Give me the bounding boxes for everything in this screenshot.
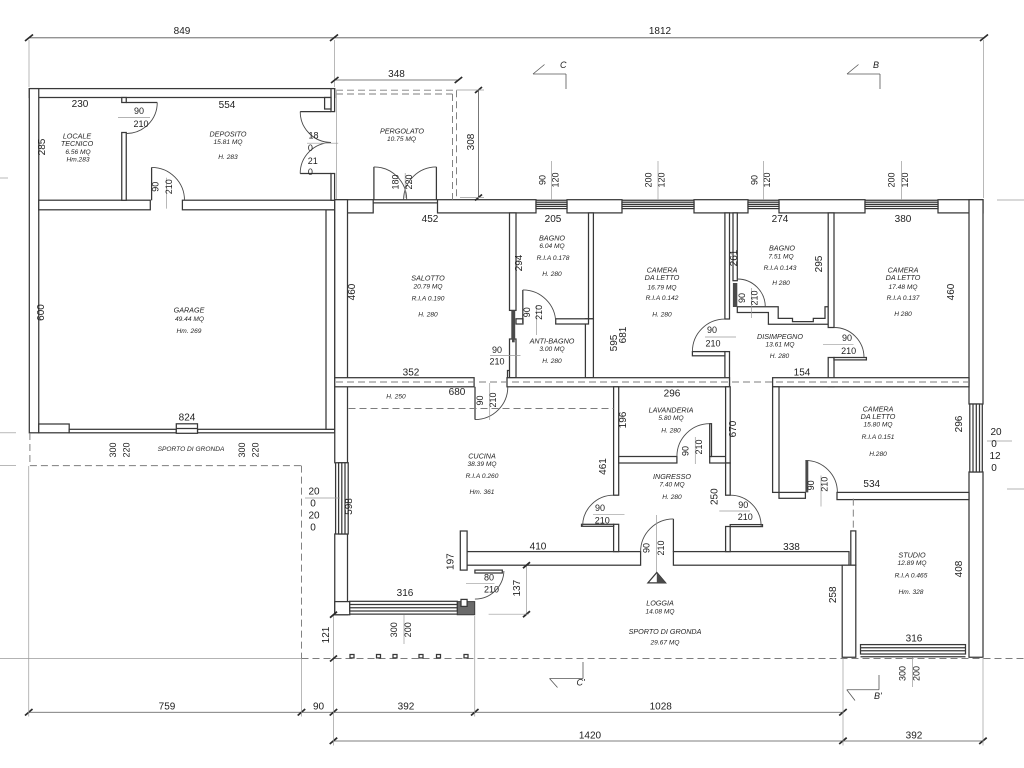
svg-text:0: 0 [310,499,316,510]
svg-text:205: 205 [545,214,562,225]
svg-text:308: 308 [466,133,477,150]
house east wall lower [969,472,983,657]
svg-text:BAGNO: BAGNO [539,234,565,243]
ext line west edge at sporto [0,465,16,467]
svg-text:338: 338 [783,542,800,553]
svg-text:12: 12 [989,451,1001,462]
svg-text:0: 0 [991,463,997,474]
pergolato dashed outline outer right [456,90,458,200]
door deposito east double leaf2 arc [300,143,331,174]
svg-text:20.79 MQ: 20.79 MQ [413,284,443,291]
svg-text:554: 554 [219,100,236,111]
svg-text:7.51 MQ: 7.51 MQ [768,254,793,261]
door salotto-cucina arc [475,387,508,420]
svg-text:210: 210 [750,290,760,305]
tick A2 [298,709,306,716]
svg-text:824: 824 [179,413,196,424]
svg-text:6.56 MQ: 6.56 MQ [65,149,90,156]
door pergolato threshold outer [373,199,437,201]
tick A4 [471,709,479,716]
svg-text:197: 197 [446,553,457,570]
cucina / loggia door side wall [461,599,467,606]
lavanderia south wall east segment [710,457,726,464]
tick 348 right [455,77,463,83]
house north wall seg1 [335,200,373,213]
svg-text:258: 258 [828,586,839,603]
cucina south wall west [335,602,350,615]
ingresso east wall lower [726,527,731,552]
svg-text:0: 0 [308,167,313,177]
window camera1 200x120 [622,200,694,208]
svg-text:20: 20 [308,487,320,498]
svg-text:410: 410 [530,542,547,553]
svg-text:300: 300 [389,622,399,637]
bottom dim line A [29,711,843,713]
svg-text:12.89 MQ: 12.89 MQ [898,560,927,567]
svg-text:GARAGE: GARAGE [174,306,205,315]
svg-text:300: 300 [237,442,247,457]
svg-text:10.75 MQ: 10.75 MQ [387,136,416,143]
door pergolato arc1 [374,167,407,200]
door loggia arc [641,519,674,552]
svg-text:1812: 1812 [649,26,672,37]
svg-text:LOGGIA: LOGGIA [646,599,674,608]
svg-text:ANTI-BAGNO: ANTI-BAGNO [529,337,575,346]
top dimension line 849+1812 [29,37,984,39]
extension line x474.75 [474,616,476,717]
tick 121 top [330,612,337,618]
svg-text:461: 461 [598,458,609,475]
ext line 308 bottom [460,197,484,199]
svg-text:210: 210 [820,477,830,492]
svg-text:Hm.283: Hm.283 [66,157,89,164]
svg-text:295: 295 [814,255,825,272]
ext line 137 bottom horizontal [489,613,529,615]
svg-text:16.79 MQ: 16.79 MQ [648,285,677,292]
wall camera1 / bagno2 [725,213,730,319]
garage south wall pilaster [39,424,69,433]
svg-text:220: 220 [122,442,132,457]
wall bagno2 / camera2 below door [828,358,834,387]
spina wall seg2 anti-bagno/camera1 south [507,378,730,387]
svg-text:H. 250: H. 250 [386,394,406,401]
svg-text:90: 90 [151,182,161,192]
door cucina-loggia arc [475,571,504,599]
svg-text:460: 460 [347,283,358,300]
ingresso east wall upper [726,463,731,495]
svg-text:1028: 1028 [650,702,673,713]
svg-text:90: 90 [737,293,747,303]
north arrow stem [655,515,657,572]
door bagno1 arc [523,290,556,323]
svg-text:200: 200 [403,622,413,637]
door deposito-garage leaf [151,167,153,200]
door ingresso east arc [730,495,761,526]
svg-text:316: 316 [397,588,414,599]
north arrow filled half [657,573,666,583]
svg-text:Hm. 269: Hm. 269 [177,328,202,335]
house north wall seg2 [438,200,537,213]
tick 137 top [523,562,530,568]
extension line top middle [333,40,335,87]
ext line 308 top [457,89,485,91]
house west wall lower [335,534,348,615]
svg-text:R.I.A 0.465: R.I.A 0.465 [895,573,928,580]
bagno2 west wall [733,213,737,281]
svg-text:90: 90 [681,446,691,456]
svg-text:90: 90 [595,503,605,513]
svg-text:7.40 MQ: 7.40 MQ [659,482,684,489]
svg-text:600: 600 [36,304,47,321]
lavanderia west / ingresso west wall upper [614,387,619,495]
svg-text:210: 210 [534,305,544,320]
svg-text:SPORTO DI GRONDA: SPORTO DI GRONDA [629,627,702,636]
door cucina-loggia leaf [475,570,502,573]
svg-text:0: 0 [991,439,997,450]
window camera3 east 200x120 [970,404,983,472]
svg-text:296: 296 [954,415,965,432]
svg-text:18: 18 [308,131,318,141]
svg-text:285: 285 [37,138,48,155]
svg-text:H. 280: H. 280 [542,358,562,365]
extension line x843 [842,659,844,746]
deposito east wall lower segment [331,174,335,201]
wall locale tecnico / deposito [122,133,127,201]
tick top left [25,35,33,42]
svg-text:300: 300 [108,442,118,457]
door camera1 arc [692,319,725,352]
svg-text:29.67 MQ: 29.67 MQ [650,640,680,647]
pergolato dashed outline outer top [336,89,457,91]
svg-text:90: 90 [642,543,652,553]
svg-text:B: B [873,60,879,70]
svg-text:H. 280: H. 280 [770,353,790,360]
door pergolato threshold inner [373,202,437,204]
svg-text:230: 230 [72,99,89,110]
wall camera1 east lower / disimpegno [725,352,730,387]
svg-text:196: 196 [618,411,629,428]
door salotto-cucina leaf [474,387,476,420]
svg-text:R.I.A 0.143: R.I.A 0.143 [764,265,797,272]
north arrow outline [648,573,666,583]
ext line east edge window sep [987,440,1012,442]
svg-text:380: 380 [895,214,912,225]
svg-text:210: 210 [694,439,704,454]
svg-text:294: 294 [514,254,525,271]
house north wall seg6 [938,200,983,213]
svg-text:300: 300 [898,666,908,681]
svg-text:759: 759 [159,702,176,713]
door anti-bagno pocket leaf [511,310,515,339]
deposito north-east niche [325,98,331,110]
svg-text:352: 352 [403,368,420,379]
svg-text:C': C' [577,678,585,688]
svg-text:H. 280: H. 280 [652,312,672,319]
garage south wall east segment [198,429,335,433]
svg-text:38.39 MQ: 38.39 MQ [468,461,497,468]
svg-text:TECNICO: TECNICO [61,139,94,148]
svg-text:3.00 MQ: 3.00 MQ [539,346,564,353]
tick 137 bottom [523,611,530,617]
svg-text:200: 200 [644,172,654,187]
svg-text:DA LETTO: DA LETTO [861,412,896,421]
wall bagno1 / camera1 [589,213,594,319]
extension line top left [28,40,30,87]
door ingresso east leaf [730,525,762,527]
house north wall seg4 [694,200,748,213]
tick B3 [979,738,987,744]
tick A1 [25,709,33,716]
door pergolato arc2 [404,167,437,200]
svg-text:DA LETTO: DA LETTO [645,273,680,282]
svg-text:CUCINA: CUCINA [468,452,496,461]
svg-text:STUDIO: STUDIO [898,551,926,560]
svg-text:849: 849 [174,26,191,37]
house east wall upper [969,200,983,404]
pergolato dashed outline inner top [336,93,453,95]
camera3 west wall [773,387,779,493]
svg-text:210: 210 [488,392,498,407]
svg-text:210: 210 [164,179,174,194]
garage block west wall [29,89,38,433]
svg-text:H.280: H.280 [869,451,887,458]
sporto di gronda bottom dashed line [302,658,1024,660]
svg-text:210: 210 [595,515,610,525]
svg-text:0: 0 [308,143,313,153]
svg-text:PERGOLATO: PERGOLATO [380,127,424,136]
svg-text:90: 90 [475,395,485,405]
door locale tecnico arc [126,103,157,134]
svg-text:80: 80 [484,573,494,583]
ingresso west wall lower [614,524,619,551]
deposito east wall upper segment [331,89,335,112]
svg-text:21: 21 [308,156,318,166]
sporto di gronda garage dashed horizontal [30,465,302,467]
door deposito east leaf2 [300,173,331,175]
svg-text:261: 261 [729,249,740,266]
wall locale tecnico / garage [39,200,151,210]
svg-text:137: 137 [512,579,523,596]
svg-text:17.48 MQ: 17.48 MQ [889,284,918,291]
garage east wall [326,210,335,429]
tick top right [980,35,988,42]
svg-text:210: 210 [484,585,499,595]
svg-text:392: 392 [906,731,923,742]
lavanderia south wall west segment [619,457,677,464]
extension line x29 lower [28,466,30,717]
svg-text:120: 120 [551,172,561,187]
svg-text:H 280: H 280 [894,311,912,318]
svg-text:392: 392 [398,702,415,713]
door pergolato centre line [404,173,406,198]
pergolato west thin edge [335,91,337,199]
svg-text:13.61 MQ: 13.61 MQ [766,342,795,349]
window bagno2 90x120 [748,200,779,208]
svg-text:H. 280: H. 280 [662,494,682,501]
sporto marks on dashed line [350,655,468,658]
svg-text:408: 408 [954,560,965,577]
section marker C' bottom [550,662,585,688]
svg-text:SPORTO DI GRONDA: SPORTO DI GRONDA [158,446,225,453]
window bagno1 90x120 [536,200,567,208]
svg-text:15.80 MQ: 15.80 MQ [864,422,893,429]
svg-text:H. 280: H. 280 [542,271,562,278]
sporto di gronda garage dashed vertical at west [29,433,31,466]
svg-text:90: 90 [313,702,325,713]
sporto di gronda dashed vertical west of cucina [301,466,303,659]
svg-text:90: 90 [522,307,532,317]
door bagno1 leaf [522,290,524,323]
window cucina south 300x200 [350,601,458,614]
studio west wall thick / loggia east wall [842,565,856,657]
tick B1 [330,738,338,744]
tick 121 bottom [330,656,337,662]
svg-text:R.I.A 0.190: R.I.A 0.190 [412,296,445,303]
door lavanderia arc [677,424,710,457]
window garage south small [176,424,197,434]
svg-text:452: 452 [422,214,439,225]
sporto di gronda bottom solid-left part [0,658,302,660]
svg-text:154: 154 [794,368,811,379]
bagno1 south wall west jamb [516,319,523,324]
studio west wall thin upper [851,531,856,565]
door camera2 leaf [834,358,866,360]
svg-text:49.44 MQ: 49.44 MQ [175,316,204,323]
wall salotto / anti-bagno lower [510,339,517,378]
tick A5 [839,709,847,716]
svg-text:H. 283: H. 283 [218,154,238,161]
svg-text:H 280: H 280 [772,280,790,287]
door lavanderia leaf [710,424,712,457]
svg-text:20: 20 [990,427,1002,438]
door camera3 arc [805,460,837,492]
tick 348 left [331,77,339,83]
svg-text:DA LETTO: DA LETTO [886,273,921,282]
svg-text:680: 680 [449,387,466,398]
svg-text:90: 90 [738,500,748,510]
svg-text:90: 90 [134,106,144,116]
garage south wall west segment [69,429,176,433]
svg-text:598: 598 [344,498,355,515]
svg-text:0: 0 [310,523,316,534]
window camera2 200x120 [865,200,938,208]
door deposito east centre line [307,142,338,144]
door deposito east leaf1 [300,111,331,113]
garage block north wall [29,89,334,98]
svg-text:R.I.A 0.178: R.I.A 0.178 [537,255,570,262]
svg-text:SALOTTO: SALOTTO [411,274,445,283]
dim 137 line [526,565,528,614]
svg-text:20: 20 [308,511,320,522]
svg-text:14.08 MQ: 14.08 MQ [646,609,675,616]
bottom dim line B [334,740,984,742]
svg-text:90: 90 [492,345,502,355]
ext lines west edge at garage [0,432,16,434]
dashed opening loggia-studio [852,499,854,531]
svg-text:180: 180 [391,174,401,189]
svg-text:200: 200 [912,666,922,681]
svg-text:5.80 MQ: 5.80 MQ [658,415,683,422]
svg-text:R.I.A 0.137: R.I.A 0.137 [887,295,920,302]
svg-text:R.I.A 0.260: R.I.A 0.260 [466,473,499,480]
extension line x983 [982,658,984,746]
svg-text:296: 296 [664,389,681,400]
svg-text:Hm. 328: Hm. 328 [899,589,924,596]
door deposito east double leaf1 arc [300,112,331,143]
svg-text:681: 681 [618,326,629,343]
anti-bagno south-west pilaster [508,371,515,379]
svg-text:15.81 MQ: 15.81 MQ [214,139,243,146]
section marker C top [533,60,567,89]
door camera1 leaf [692,352,725,356]
dim line 308 pergolato vertical [478,90,480,198]
door anti-bagno pocket foot [512,339,515,342]
svg-text:H. 280: H. 280 [661,428,681,435]
ext line east edge lower [1007,488,1024,490]
svg-text:90: 90 [750,175,760,185]
svg-text:BAGNO: BAGNO [769,244,795,253]
svg-text:670: 670 [728,420,739,437]
bagno1 south wall east segment [556,319,589,324]
camera3 south wall east segment / studio north wall [837,492,969,499]
spina wall seg3 camera2 south [773,378,969,387]
svg-text:H. 280: H. 280 [418,312,438,319]
extension line x333.5 with 121 dim [333,615,335,746]
svg-text:R.I.A 0.151: R.I.A 0.151 [862,434,895,441]
svg-text:210: 210 [738,512,753,522]
lavanderia east wall [726,387,731,463]
extension line top right [983,40,985,198]
svg-text:210: 210 [656,540,666,555]
dashed ceiling line H.250 in cucina [349,408,614,410]
svg-text:INGRESSO: INGRESSO [653,472,691,481]
tick A3 [330,709,338,716]
house north wall seg3 [567,200,622,213]
door camera3 leaf [805,460,808,492]
wall locale tecnico / deposito upper stub [122,98,127,103]
wall salotto / bagno1 upper [510,213,517,311]
wall deposito / garage [182,200,334,210]
window studio south 300x200 [861,645,966,657]
svg-text:534: 534 [863,479,880,490]
ext line east edge top [997,199,1024,201]
door bagno2 arc [737,279,765,307]
spina wall salotto-cucina row seg1 [335,378,474,387]
house west wall upper [335,200,348,463]
door pergolato double leaf1 [373,167,375,200]
svg-text:210: 210 [133,119,148,129]
window cucina west 200x200 [336,463,349,534]
svg-text:348: 348 [388,69,405,80]
svg-text:DEPOSITO: DEPOSITO [209,130,246,139]
cucina east stub wall [460,531,467,570]
pergolato dashed outline inner right [452,94,454,200]
svg-text:210: 210 [705,339,720,349]
bagno2 south stepped wall [737,307,828,325]
door ingresso west leaf [582,524,614,526]
svg-text:1420: 1420 [579,731,602,742]
svg-text:Hm. 361: Hm. 361 [470,489,495,496]
wall anti-bagno / camera1 [585,319,593,378]
extension line x301 lower [301,659,303,717]
section marker B top [847,60,880,89]
svg-text:250: 250 [710,488,721,505]
cucina south wall corner block [457,602,474,615]
tick top middle [330,35,338,42]
svg-text:210: 210 [489,357,504,367]
door ingresso west arc [583,495,614,526]
svg-text:B': B' [874,691,882,701]
